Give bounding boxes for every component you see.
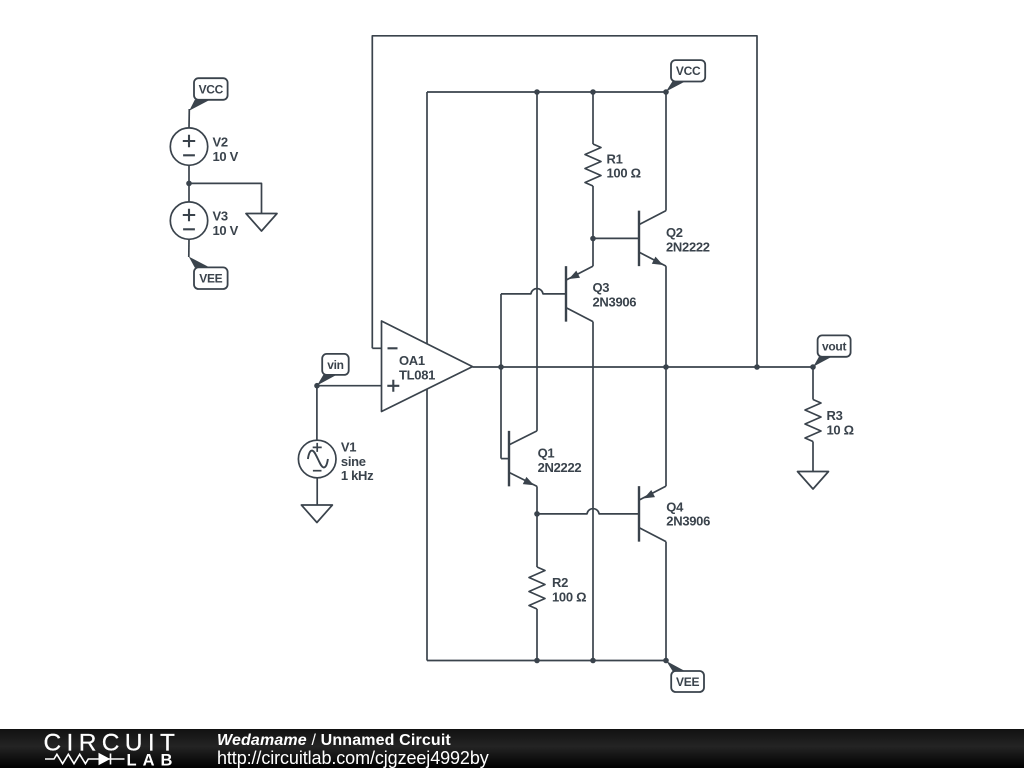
wire V2 minus to V3 plus [188, 165, 190, 202]
ground (supply midpoint) [246, 214, 277, 232]
node junction VEE rail anchor [663, 658, 669, 664]
resistor R1 [585, 144, 601, 186]
svg-text:2N2222: 2N2222 [666, 239, 710, 254]
svg-text:R2: R2 [552, 575, 568, 590]
wire op-amp V+ pin to VCC rail [426, 92, 428, 344]
svg-text:R3: R3 [827, 408, 843, 423]
wire R2 bottom lead [536, 609, 538, 661]
transistor Q1 2N2222 (NPN) [501, 458, 509, 460]
voltage source V3 [170, 202, 207, 239]
svg-text:VEE: VEE [199, 272, 222, 286]
node junction output / Q2-Q4 emitters [663, 364, 669, 370]
transistor Q2 2N2222 (NPN) [593, 237, 639, 239]
node junction base tap / output rail [498, 364, 504, 370]
wire Q2 emitter to output node [665, 266, 667, 367]
svg-text:V3: V3 [213, 209, 228, 224]
node junction VCC rail / Q1 collector [534, 89, 540, 95]
wire Q3 base with hop over Q1 collector wire [501, 289, 566, 294]
wire op-amp inverting input stub [372, 347, 381, 349]
svg-text:http://circuitlab.com/cjgzeej4: http://circuitlab.com/cjgzeej4992by [217, 748, 489, 768]
voltage source V2 [170, 128, 207, 165]
svg-text:100 Ω: 100 Ω [552, 589, 586, 604]
ground (below R3) [798, 472, 829, 490]
node junction VEE rail / R2 [534, 658, 540, 664]
svg-text:10 V: 10 V [213, 223, 239, 238]
wire output rail (op-amp output to vout) [473, 366, 814, 368]
node junction R1 / Q2 base / Q3 emitter [590, 236, 596, 242]
wire R1 bottom lead [592, 186, 594, 239]
wire Q2 collector to VCC rail [665, 92, 667, 211]
transistor Q4 2N3906 (PNP) [638, 486, 640, 542]
op-amp OA1 [382, 321, 473, 412]
svg-text:R1: R1 [607, 151, 623, 166]
node vin junction [314, 383, 320, 389]
svg-text:TL081: TL081 [399, 367, 435, 382]
CircuitLab logo resistor-diode glyph [45, 754, 125, 765]
node junction between V2 and V3 [186, 181, 192, 187]
wire Q4 emitter up to output node [665, 367, 667, 486]
net label VEE (left supply rail) [189, 257, 210, 268]
wire Q4 base with hop over Q3 collector wire [537, 509, 639, 514]
resistor R3 [805, 400, 821, 442]
node junction VCC rail anchor [663, 89, 669, 95]
net label vin [317, 375, 336, 386]
net label VCC (right) [666, 81, 686, 91]
svg-text:VEE: VEE [676, 675, 699, 689]
sine voltage source V1 [298, 440, 336, 478]
svg-text:VCC: VCC [199, 82, 224, 96]
net label VEE (bottom) [666, 661, 685, 671]
wire vin to op-amp non-inverting input [317, 385, 382, 387]
node junction VEE rail / Q3 collector [590, 658, 596, 664]
CircuitLab logo wordmark [44, 730, 181, 768]
wire feedback loop (inverting input to output node) [372, 36, 757, 367]
svg-text:vout: vout [822, 339, 846, 353]
wire Q4 collector down to VEE rail [665, 542, 667, 661]
node vout anchor [810, 364, 816, 370]
svg-text:2N2222: 2N2222 [538, 460, 582, 475]
svg-text:10 Ω: 10 Ω [827, 422, 854, 437]
svg-text:10 V: 10 V [213, 149, 239, 164]
svg-text:vin: vin [327, 358, 343, 372]
svg-text:sine: sine [341, 454, 366, 469]
node junction VCC rail / R1 [590, 89, 596, 95]
wire VEE rail [427, 660, 666, 662]
svg-text:2N3906: 2N3906 [593, 294, 637, 309]
wire base tap vertical (op-amp output to Q3/Q1 bases) [500, 294, 502, 459]
wire V3 minus to VEE label [188, 239, 190, 257]
svg-text:1 kHz: 1 kHz [341, 468, 374, 483]
wire V1 minus to ground [316, 478, 318, 505]
svg-text:Wedamame / Unnamed Circuit: Wedamame / Unnamed Circuit [217, 732, 451, 749]
svg-text:V1: V1 [341, 440, 356, 455]
net label vout [813, 357, 832, 367]
wire R2 top lead [536, 514, 538, 567]
wire R3 bottom lead [812, 442, 814, 472]
wire Q1 emitter to R2 junction [536, 486, 538, 514]
wire junction to ground [189, 183, 262, 213]
footer bar [0, 729, 1024, 768]
svg-text:VCC: VCC [676, 64, 701, 78]
wire V1 plus to vin node [316, 386, 318, 441]
svg-text:V2: V2 [213, 135, 228, 150]
transistor Q3 2N3906 (PNP) [565, 266, 567, 322]
wire VCC label to V2 plus terminal [188, 109, 190, 129]
svg-text:2N3906: 2N3906 [666, 514, 710, 529]
svg-text:Q4: Q4 [666, 499, 684, 514]
wire R3 top lead [812, 367, 814, 400]
svg-text:100 Ω: 100 Ω [607, 166, 641, 181]
wire Q3 emitter up to R1 junction [592, 239, 594, 267]
wire op-amp V- pin to VEE rail [426, 389, 428, 660]
wire VCC rail [427, 91, 666, 93]
svg-text:OA1: OA1 [399, 353, 425, 368]
node junction output / feedback [754, 364, 760, 370]
wire R1 top lead [592, 92, 594, 144]
svg-text:Q2: Q2 [666, 225, 683, 240]
net label VCC (left supply rail) [189, 100, 210, 111]
wire Q3 collector down to VEE rail [592, 322, 594, 661]
ground (below V1) [301, 505, 332, 523]
resistor R2 [529, 567, 545, 609]
wire Q1 collector to VCC rail [536, 92, 538, 431]
svg-text:Q1: Q1 [538, 446, 555, 461]
node junction Q1 emitter / R2 / Q4 base [534, 511, 540, 517]
svg-text:Q3: Q3 [593, 280, 610, 295]
svg-text:LAB: LAB [127, 752, 179, 768]
